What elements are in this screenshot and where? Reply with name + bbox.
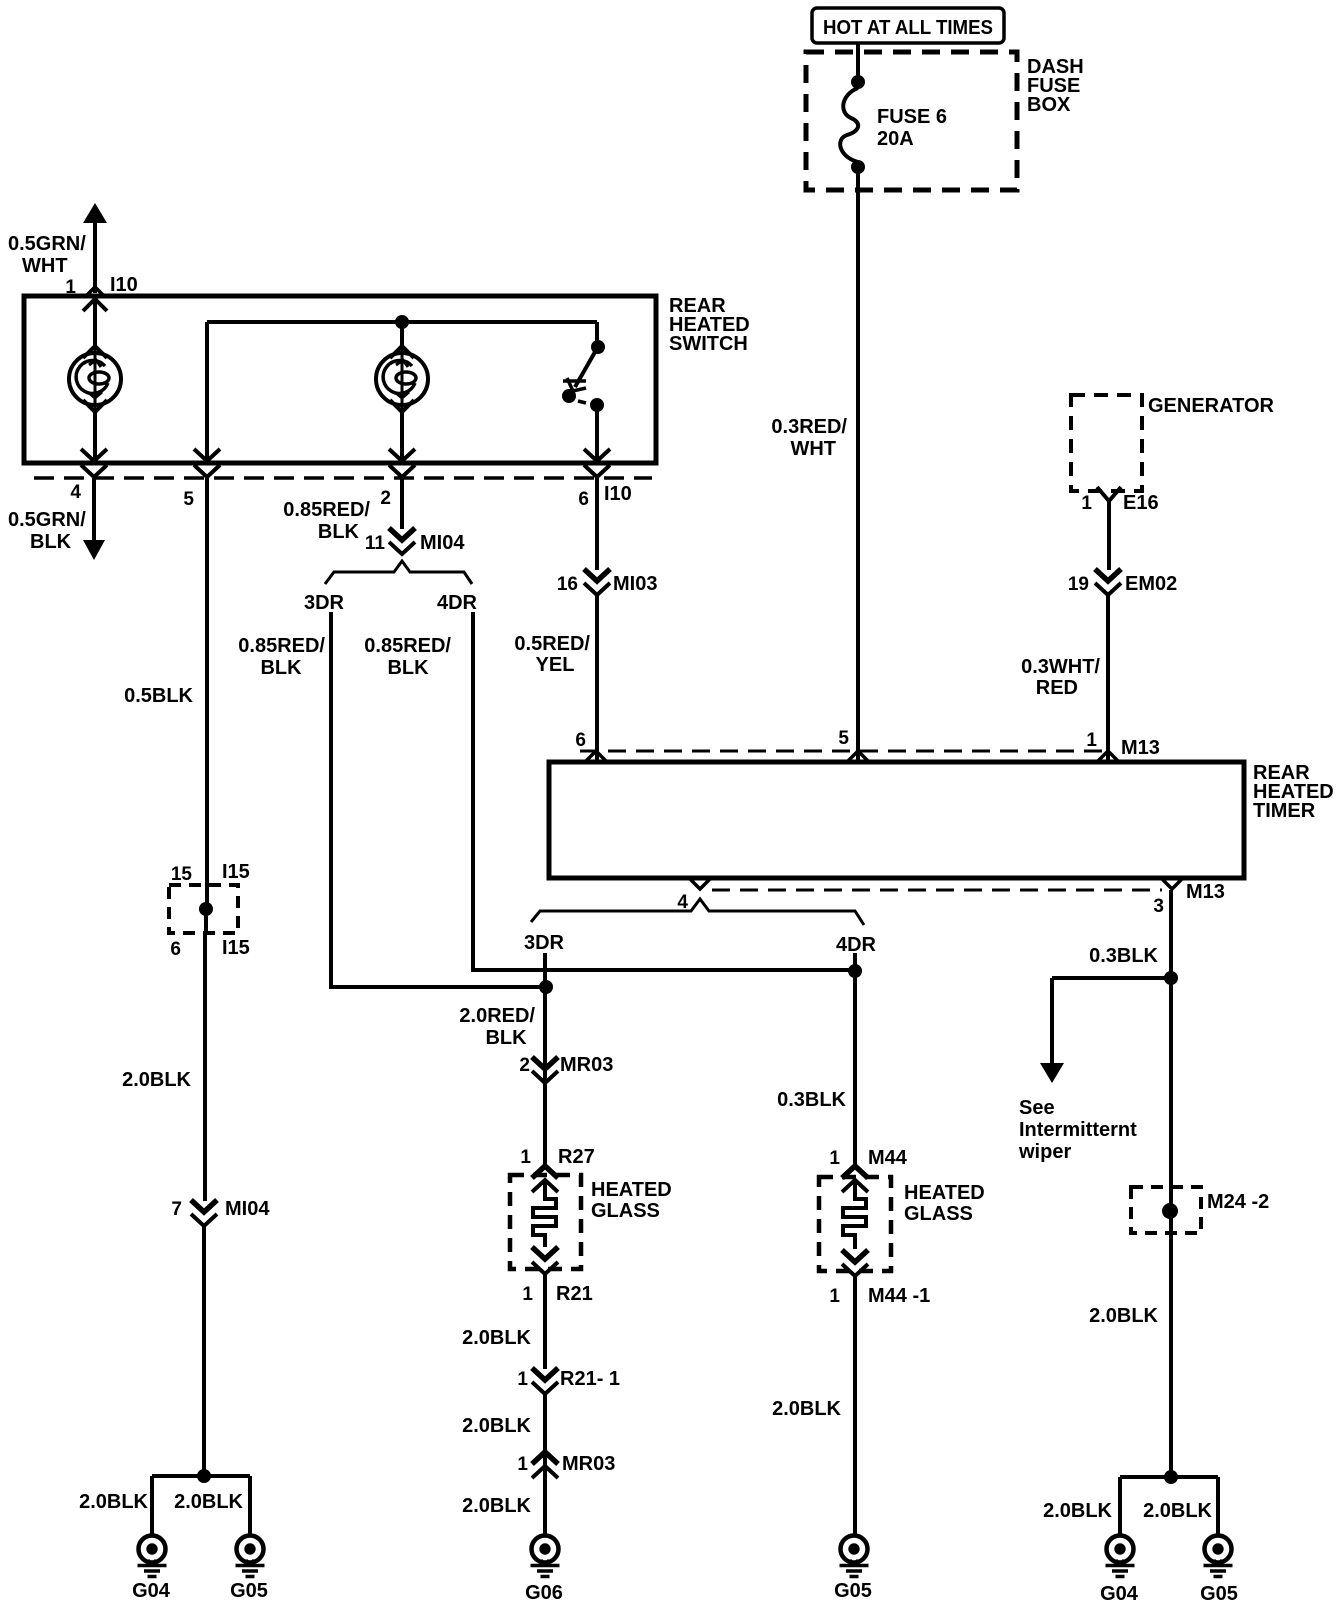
svg-text:G04: G04 [132, 1580, 171, 1602]
svg-text:FUSE 6: FUSE 6 [877, 106, 947, 128]
timer pin 4 tent [689, 878, 711, 889]
wire from hot feed into fuse box [856, 43, 860, 81]
svg-text:2: 2 [519, 1055, 530, 1076]
heated glass box left [510, 1175, 672, 1269]
svg-text:G04: G04 [1100, 1583, 1139, 1605]
connector MI03 pin 16 [557, 569, 658, 595]
svg-text:4DR: 4DR [437, 592, 478, 614]
wire R21-1 to MR03 2.0BLK [543, 1394, 547, 1466]
wire pin 6 to MI03 [595, 478, 599, 570]
pin labels 4 5 2 6 I10 [70, 482, 631, 510]
wire 3DR branch 0.85RED/BLK [331, 612, 540, 987]
svg-text:19: 19 [1068, 574, 1089, 595]
svg-text:GENERATOR: GENERATOR [1148, 395, 1274, 417]
svg-text:MR03: MR03 [562, 1453, 615, 1475]
connector M44 pin 1 [829, 1147, 907, 1192]
ground G04 right [1100, 1536, 1139, 1606]
svg-text:I15: I15 [222, 937, 250, 959]
wire MR03 to ground 2.0BLK [543, 1466, 547, 1536]
svg-text:Intermitternt: Intermitternt [1019, 1119, 1137, 1141]
svg-text:SWITCH: SWITCH [669, 333, 748, 355]
svg-text:4: 4 [70, 482, 81, 503]
connector MI04 pin 11 [365, 528, 465, 554]
svg-text:0.85RED/: 0.85RED/ [238, 635, 325, 657]
HOT AT ALL TIMES box [812, 8, 1004, 43]
wire to intermittent wiper [1052, 978, 1171, 1064]
pin 1 connector E16 [1081, 487, 1158, 514]
fuse F6 20A [840, 88, 947, 162]
svg-text:3DR: 3DR [524, 932, 565, 954]
svg-text:2.0BLK: 2.0BLK [462, 1415, 531, 1437]
svg-text:RED: RED [1036, 677, 1078, 699]
wire pin 2 to MI04 [400, 478, 404, 529]
heated glass box right [819, 1177, 985, 1271]
svg-text:M13: M13 [1186, 881, 1225, 903]
svg-text:I10: I10 [110, 274, 138, 296]
svg-text:2.0BLK: 2.0BLK [174, 1491, 243, 1513]
svg-text:2.0BLK: 2.0BLK [79, 1491, 148, 1513]
svg-text:2.0BLK: 2.0BLK [1089, 1305, 1158, 1327]
svg-text:16: 16 [557, 574, 578, 595]
svg-text:2.0BLK: 2.0BLK [462, 1327, 531, 1349]
wire 4DR branch 0.85RED/BLK [473, 612, 855, 970]
wire 0.5GRN/WHT arrow up (off-page) [8, 203, 107, 293]
svg-text:2.0BLK: 2.0BLK [1043, 1500, 1112, 1522]
svg-text:20A: 20A [877, 128, 914, 150]
svg-text:3: 3 [1153, 896, 1164, 917]
timer pin 6 tent [585, 751, 607, 762]
wire lamp1 column [93, 296, 97, 462]
svg-text:0.5BLK: 0.5BLK [124, 685, 193, 707]
svg-text:0.3RED/: 0.3RED/ [771, 416, 847, 438]
wire MI04 to ground junction 2.0BLK [202, 1226, 206, 1477]
svg-text:M44 -1: M44 -1 [868, 1285, 930, 1307]
rear heated switch box [24, 296, 656, 463]
svg-text:11: 11 [365, 533, 386, 554]
svg-text:M24 -2: M24 -2 [1207, 1191, 1269, 1213]
pin 1 label I10 [65, 274, 137, 298]
wire 0.3RED/WHT fuse to timer pin 5 [856, 173, 860, 762]
wire pin 5 column 0.5BLK [205, 478, 209, 886]
svg-text:0.3WHT/: 0.3WHT/ [1021, 656, 1100, 678]
svg-text:2.0BLK: 2.0BLK [1143, 1500, 1212, 1522]
wire generator to EM02 [1107, 501, 1111, 570]
svg-text:BLK: BLK [30, 531, 72, 553]
connector MR03 pin 1 lower [517, 1452, 615, 1478]
svg-text:MI04: MI04 [420, 532, 465, 554]
svg-text:G05: G05 [834, 1580, 872, 1602]
svg-text:R21- 1: R21- 1 [560, 1368, 620, 1390]
svg-text:MR03: MR03 [560, 1054, 613, 1076]
wire MI03 to timer pin 6 [595, 595, 599, 762]
svg-text:6: 6 [575, 730, 586, 751]
svg-text:5: 5 [838, 728, 849, 749]
svg-text:BLK: BLK [485, 1027, 527, 1049]
wire I15 through [206, 886, 207, 933]
junction 3DR [539, 980, 553, 994]
svg-text:2.0RED/: 2.0RED/ [459, 1005, 535, 1027]
connector M13 dashed line bottom [712, 889, 1162, 892]
svg-text:I10: I10 [604, 483, 632, 505]
connector MR03 pin 2 [519, 1054, 613, 1083]
off-page arrow wiper [1040, 1063, 1064, 1083]
svg-text:WHT: WHT [22, 255, 68, 277]
svg-text:YEL: YEL [536, 654, 575, 676]
node fuse top [851, 75, 865, 89]
label 0.5RED/YEL [514, 633, 590, 676]
connector R21 pin 1 [522, 1247, 592, 1305]
ground G05 middle [834, 1536, 872, 1603]
svg-text:0.85RED/: 0.85RED/ [283, 499, 370, 521]
pin 4 chevrons [81, 449, 107, 461]
svg-text:E16: E16 [1123, 492, 1159, 514]
rear heated timer box [549, 762, 1244, 878]
timer top pin labels [575, 728, 1159, 759]
svg-text:wiper: wiper [1018, 1141, 1071, 1163]
svg-text:G05: G05 [1200, 1583, 1238, 1605]
svg-text:BLK: BLK [260, 657, 302, 679]
connector M13 dashed line top [580, 750, 1108, 753]
wire timer pin 3 0.3BLK [1169, 890, 1173, 1477]
junction wiper branch [1164, 971, 1178, 985]
pin 2 chevrons [389, 449, 415, 461]
svg-text:BOX: BOX [1027, 94, 1071, 116]
svg-text:1: 1 [517, 1369, 528, 1390]
resistor heated glass left [533, 1180, 556, 1247]
svg-text:4DR: 4DR [836, 934, 877, 956]
timer pin 1 tent [1097, 751, 1119, 762]
resistor heated glass right [843, 1180, 866, 1249]
svg-text:I15: I15 [222, 861, 250, 883]
generator box [1071, 395, 1274, 491]
svg-text:5: 5 [183, 489, 194, 510]
wire split to G04/G05 [152, 1476, 250, 1536]
svg-text:0.5GRN/: 0.5GRN/ [8, 509, 86, 531]
timer pin 5 tent [847, 751, 869, 762]
svg-text:GLASS: GLASS [591, 1200, 660, 1222]
timer pin 3 tent [1161, 878, 1183, 889]
brace split 3DR/4DR lower [531, 899, 864, 925]
svg-text:2.0BLK: 2.0BLK [772, 1398, 841, 1420]
svg-text:G05: G05 [230, 1580, 268, 1602]
wire R21 to R21-1 2.0BLK [543, 1274, 547, 1369]
wire 3DR lower vertical [543, 953, 547, 1166]
label 2.0RED/BLK [459, 1005, 535, 1049]
pin 6 chevrons [584, 449, 610, 461]
junction right grounds [1164, 1470, 1178, 1484]
indicator lamp right [376, 346, 428, 412]
ground G06 [525, 1536, 563, 1605]
svg-text:HOT AT ALL TIMES: HOT AT ALL TIMES [823, 17, 993, 39]
connector R27 pin 1 [520, 1146, 594, 1192]
wire I15 to MI04 2.0BLK [203, 933, 207, 1201]
svg-text:6: 6 [578, 489, 589, 510]
svg-text:MI03: MI03 [613, 573, 657, 595]
svg-text:WHT: WHT [790, 438, 836, 460]
wire 0.5GRN/BLK arrow down (off-page) [8, 478, 105, 560]
pin 5 chevrons [194, 449, 220, 461]
svg-text:See: See [1019, 1097, 1055, 1119]
wire split to G04/G05 right [1120, 1477, 1218, 1536]
ground G05 right [1200, 1536, 1238, 1606]
indicator lamp left [69, 346, 121, 412]
svg-text:HEATED: HEATED [591, 1179, 672, 1201]
junction 4DR [848, 964, 862, 978]
ground G04 left [132, 1536, 171, 1603]
svg-text:1: 1 [829, 1286, 840, 1307]
svg-text:2.0BLK: 2.0BLK [122, 1069, 191, 1091]
svg-text:1: 1 [829, 1148, 840, 1169]
label see intermittent wiper [1018, 1097, 1137, 1163]
pin 1 connector at switch top [83, 287, 107, 311]
svg-text:3DR: 3DR [304, 592, 345, 614]
wire inside switch: bus y=322 [207, 320, 597, 324]
connector M24-2 box [1131, 1187, 1269, 1233]
svg-text:R21: R21 [556, 1283, 593, 1305]
label 0.3RED/WHT [771, 416, 847, 460]
svg-text:G06: G06 [525, 1582, 563, 1604]
svg-text:6: 6 [170, 939, 181, 960]
svg-text:TIMER: TIMER [1253, 800, 1316, 822]
label REAR HEATED TIMER [1253, 762, 1334, 822]
label 0.85RED/BLK pin2 [283, 499, 370, 543]
node lamp2 top [395, 315, 409, 329]
svg-text:7: 7 [171, 1199, 182, 1220]
switch S1 [562, 322, 605, 462]
wire 0.3WHT/RED to timer pin 1 [1106, 595, 1110, 762]
svg-text:0.85RED/: 0.85RED/ [364, 635, 451, 657]
svg-text:0.3BLK: 0.3BLK [777, 1089, 846, 1111]
connector MI04 pin 7 [171, 1198, 270, 1226]
svg-text:HEATED: HEATED [904, 1182, 985, 1204]
svg-text:M13: M13 [1121, 737, 1160, 759]
svg-text:BLK: BLK [318, 521, 360, 543]
wire pin5 column [205, 322, 209, 462]
svg-text:GLASS: GLASS [904, 1203, 973, 1225]
brace split 3DR/4DR [325, 561, 472, 584]
junction left grounds [197, 1469, 211, 1483]
svg-text:EM02: EM02 [1125, 573, 1177, 595]
svg-text:2: 2 [380, 488, 391, 509]
wire 4DR lower vertical 0.3BLK [853, 953, 857, 1166]
node fuse bottom [851, 160, 865, 174]
svg-text:1: 1 [1086, 730, 1097, 751]
svg-text:1: 1 [1081, 493, 1092, 514]
svg-text:BLK: BLK [387, 657, 429, 679]
ground G05 left [230, 1536, 268, 1603]
svg-text:MI04: MI04 [225, 1198, 270, 1220]
svg-text:R27: R27 [558, 1146, 595, 1168]
svg-text:15: 15 [171, 864, 193, 885]
label REAR HEATED SWITCH [669, 295, 750, 355]
svg-text:0.5RED/: 0.5RED/ [514, 633, 590, 655]
svg-text:M44: M44 [868, 1147, 908, 1169]
svg-text:1: 1 [520, 1147, 531, 1168]
connector M44-1 pin 1 [829, 1250, 930, 1307]
svg-text:0.5GRN/: 0.5GRN/ [8, 233, 86, 255]
connector I15 box [169, 861, 250, 960]
svg-text:1: 1 [522, 1284, 533, 1305]
dash fuse box [806, 52, 1084, 190]
svg-text:0.3BLK: 0.3BLK [1089, 945, 1158, 967]
wire lamp2 column [400, 322, 404, 462]
connector I10 dashed line [34, 476, 652, 480]
svg-text:2.0BLK: 2.0BLK [462, 1495, 531, 1517]
wire M44-1 to ground 2.0BLK [853, 1276, 857, 1536]
connector R21-1 pin 1 [517, 1368, 620, 1394]
connector EM02 pin 19 [1068, 569, 1177, 595]
timer bottom pin labels [677, 881, 1224, 917]
svg-text:1: 1 [517, 1454, 528, 1475]
